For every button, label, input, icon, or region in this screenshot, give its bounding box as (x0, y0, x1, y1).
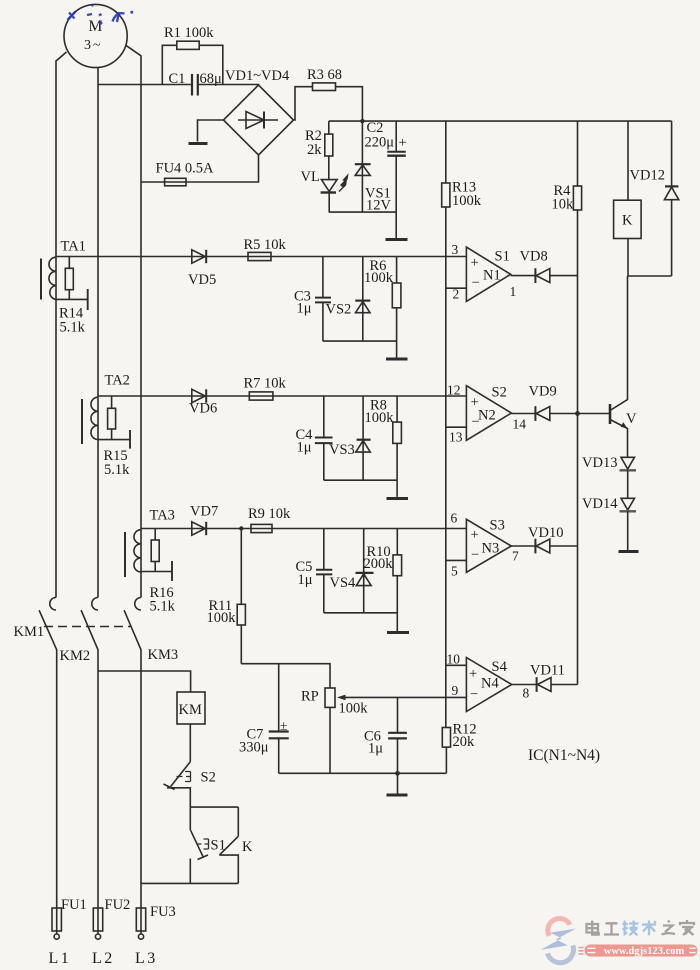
svg-text:S3: S3 (490, 518, 505, 534)
node bus junction VS1 (360, 119, 364, 123)
svg-text:VD13: VD13 (582, 455, 617, 471)
resistor R8 100k (365, 396, 402, 497)
fuse FU1 (49, 897, 87, 967)
LED VL (301, 169, 348, 212)
svg-text:www.dgjs123.com: www.dgjs123.com (604, 946, 685, 957)
diode VD13 (582, 455, 636, 498)
wire C1 to bridge top (198, 84, 259, 87)
ground (reference rail) (387, 794, 408, 797)
resistor R9 10k (248, 506, 291, 533)
svg-text:FU3: FU3 (150, 904, 176, 920)
svg-text:VD14: VD14 (582, 496, 618, 512)
resistor R10 200k (364, 529, 402, 632)
wire row2 RC bottom rail (324, 479, 397, 481)
svg-text:1μ: 1μ (298, 572, 313, 588)
watermark title dian-gong-ji-shu-zhi-jia (587, 920, 695, 935)
relay coil K (614, 121, 642, 276)
contact K (relay self-hold) (219, 807, 253, 883)
wire row3 TA3 to S3 pin6 (141, 528, 466, 530)
svg-text:100k: 100k (364, 270, 394, 286)
wire C1 feed from leg L2 (98, 84, 191, 86)
svg-text:KM3: KM3 (148, 647, 179, 663)
wire KM coil to S2 (189, 724, 191, 762)
svg-text:VS3: VS3 (329, 442, 355, 458)
svg-text:10k: 10k (552, 197, 575, 213)
resistor R13 100k (442, 121, 482, 727)
svg-text:−: − (472, 275, 480, 291)
wire bridge left vertex to ground (198, 120, 224, 142)
wire S2 branch (190, 806, 238, 808)
svg-text:1μ: 1μ (297, 301, 312, 317)
zener VS1 12V (355, 121, 392, 213)
svg-text:330μ: 330μ (239, 740, 269, 756)
svg-text:+: + (471, 527, 479, 543)
svg-text:10: 10 (447, 652, 461, 667)
svg-text:S2: S2 (492, 385, 507, 401)
svg-text:VS4: VS4 (330, 575, 357, 591)
svg-text:−: − (471, 547, 479, 563)
svg-text:100k: 100k (452, 193, 482, 209)
svg-text:C1: C1 (169, 71, 186, 87)
svg-text:R3 68: R3 68 (307, 67, 342, 83)
svg-text:3: 3 (452, 242, 459, 257)
fuse FU2 (92, 897, 130, 967)
ground (bridge minus) (189, 142, 208, 145)
wire +12V bus (329, 120, 672, 122)
resistor R5 10k (244, 237, 287, 261)
svg-text:3~: 3~ (84, 38, 101, 53)
wire row1 TA1 to S1 pin3 (56, 256, 466, 258)
wire motor leg L1 slant (56, 52, 67, 598)
svg-text:IC(N1~N4): IC(N1~N4) (528, 747, 600, 764)
ground (emitter chain) (619, 550, 639, 553)
svg-text:N1: N1 (483, 268, 501, 284)
svg-text:N2: N2 (478, 408, 496, 424)
potentiometer RP 100k (301, 688, 466, 773)
resistor R1 100k loop (162, 25, 223, 85)
svg-text:5.1k: 5.1k (60, 320, 86, 336)
svg-text:N3: N3 (482, 541, 500, 557)
svg-text:R7 10k: R7 10k (244, 376, 287, 392)
current transformer TA1 (41, 239, 86, 300)
resistor R3 68 (307, 67, 342, 91)
svg-text:M: M (89, 18, 103, 35)
svg-text:20k: 20k (453, 734, 476, 750)
wire S3 pin5 stub (446, 559, 467, 561)
svg-text:12: 12 (447, 383, 461, 398)
wire TA2 secondary bottom with terminal bar (98, 430, 130, 449)
diode VD14 (582, 496, 636, 550)
svg-text:L1: L1 (49, 950, 72, 967)
diode VD11 (530, 663, 565, 692)
contactor coil KM (177, 692, 205, 724)
svg-text:VD12: VD12 (630, 168, 665, 184)
svg-text:+: + (471, 255, 479, 271)
bridge rectifier VD1~VD4 (224, 68, 294, 155)
contact KM1 (14, 598, 57, 909)
watermark logo (541, 919, 576, 963)
watermark banner www.dgjs123.com (579, 945, 698, 958)
svg-text:VD6: VD6 (189, 401, 217, 417)
svg-text:S1: S1 (495, 249, 510, 265)
svg-text:VD1~VD4: VD1~VD4 (225, 68, 290, 84)
svg-text:7: 7 (512, 549, 519, 564)
wire S1 pin2 stub (446, 287, 467, 289)
zener VS2 (326, 257, 371, 342)
svg-text:200k: 200k (364, 556, 394, 572)
svg-text:S2: S2 (201, 770, 216, 786)
svg-text:100k: 100k (339, 701, 369, 717)
svg-text:VD8: VD8 (520, 249, 548, 265)
motor M1 3-phase (64, 4, 127, 67)
svg-text:100k: 100k (207, 610, 237, 626)
transistor V (610, 276, 637, 457)
ground (row2) (387, 497, 409, 500)
diode VD9 (529, 384, 557, 421)
svg-text:−: − (470, 687, 478, 703)
svg-text:9: 9 (452, 683, 459, 698)
svg-text:8: 8 (523, 686, 530, 701)
svg-text:13: 13 (449, 430, 463, 445)
switch S1 (start button) (190, 807, 226, 883)
wire FU4 branch from leg L3 (141, 181, 165, 183)
wire motor leg L3 slant (126, 46, 141, 598)
current transformer TA3 (125, 508, 175, 578)
diode VD8 (520, 249, 550, 284)
wire RP/C6/R12 bottom rail (279, 772, 447, 774)
svg-text:1μ: 1μ (368, 741, 383, 757)
ground (row3) (387, 631, 409, 634)
capacitor C2 220u (365, 120, 407, 212)
resistor R2 2k (305, 121, 333, 180)
fuse FU4 0.5A (156, 161, 215, 186)
wire S4 output (512, 684, 578, 686)
svg-text:12V: 12V (366, 198, 392, 214)
svg-text:R1 100k: R1 100k (164, 25, 214, 41)
diode VD12 (630, 121, 679, 276)
wire S1 output (511, 275, 578, 277)
svg-text:R9 10k: R9 10k (248, 506, 291, 522)
svg-text:VD10: VD10 (528, 525, 563, 541)
svg-text:VL: VL (301, 169, 320, 185)
svg-text:K: K (242, 839, 253, 855)
diode VD10 (528, 525, 563, 553)
resistor R12 20k (442, 722, 476, 774)
svg-text:TA2: TA2 (105, 373, 130, 389)
svg-text:TA1: TA1 (61, 239, 86, 255)
svg-text:KM2: KM2 (60, 648, 91, 664)
wire R11 to RP top (241, 664, 330, 688)
resistor R4 10k (552, 121, 582, 684)
op-amp U2 S2(N2) (447, 383, 526, 445)
capacitor C7 330u (239, 664, 289, 774)
svg-text:VD9: VD9 (529, 384, 557, 400)
node R11 junction (239, 526, 243, 530)
wire VL/VS1/C2 bottom rail (329, 212, 396, 238)
wire S4 pin10 stub (446, 664, 467, 666)
svg-text:+: + (399, 135, 407, 151)
op-amp U3 S3(N3) (451, 511, 520, 579)
wire bottom return to L3 line (141, 882, 238, 884)
switch S2 (stop button) (164, 762, 216, 807)
resistor R6 100k (364, 257, 401, 358)
capacitor C6 1u (364, 697, 407, 773)
linkage dashed line (44, 626, 132, 628)
svg-text:1: 1 (510, 284, 517, 299)
svg-text:RP: RP (301, 689, 319, 705)
wire motor leg L2 (97, 68, 99, 598)
resistor R16 5.1k (150, 529, 176, 615)
svg-text:5.1k: 5.1k (150, 599, 176, 615)
wire row1 RC bottom rail (323, 340, 397, 342)
resistor R11 100k (207, 529, 246, 664)
resistor R14 5.1k (59, 257, 86, 336)
diode VD6 (189, 389, 217, 416)
svg-text:V: V (626, 411, 637, 427)
capacitor C4 1u (296, 396, 333, 480)
wire S2 output (511, 413, 577, 415)
zener VS4 (330, 529, 374, 613)
svg-text:VD5: VD5 (188, 272, 216, 288)
wire row3 RC bottom rail (324, 612, 398, 614)
wire TA3 secondary bottom with terminal bar (141, 561, 172, 581)
contact KM2 (60, 598, 99, 909)
capacitor C1 68u (169, 71, 223, 96)
svg-text:R5 10k: R5 10k (244, 237, 287, 253)
wire row2 TA2 to S2 pin12 (98, 395, 466, 397)
wire S3 output (511, 545, 577, 547)
svg-text:L2: L2 (92, 950, 115, 967)
svg-text:VD11: VD11 (530, 663, 565, 679)
fuse FU3 (135, 904, 176, 967)
zener VS3 (329, 396, 371, 480)
svg-text:K: K (622, 213, 633, 229)
blue pen scribble artifact on motor (68, 4, 134, 24)
wire FU4 to bridge bottom (186, 155, 259, 182)
svg-text:L3: L3 (135, 950, 158, 967)
svg-text:5.1k: 5.1k (104, 462, 130, 478)
wire ground stub (397, 773, 399, 793)
diode VD7 (190, 504, 218, 536)
svg-text:VS2: VS2 (326, 302, 352, 318)
svg-text:220μ: 220μ (365, 135, 395, 151)
op-amp U4 S4(N4) (447, 652, 530, 712)
ground (row1) (386, 358, 408, 361)
capacitor C5 1u (296, 529, 333, 613)
svg-text:N4: N4 (481, 676, 499, 692)
svg-text:1μ: 1μ (297, 440, 312, 456)
svg-text:FU1: FU1 (61, 897, 87, 913)
current transformer TA2 (82, 373, 130, 445)
svg-text:FU4 0.5A: FU4 0.5A (156, 161, 215, 177)
svg-text:±: ± (280, 718, 287, 733)
wire base of V (578, 413, 611, 415)
svg-text:KM: KM (179, 702, 202, 718)
resistor R15 5.1k (104, 396, 131, 478)
capacitor C3 1u (294, 257, 331, 342)
wire TA1 secondary bottom with terminal bar (56, 289, 88, 310)
node C6 ground junction (395, 771, 400, 776)
wire bridge right vertex via R3 to bus (294, 87, 363, 121)
wire KM2 to coil KM (98, 671, 191, 692)
svg-text:2k: 2k (307, 142, 322, 158)
svg-text:VD7: VD7 (190, 504, 218, 520)
svg-text:S4: S4 (492, 659, 508, 675)
svg-text:+: + (469, 666, 477, 682)
ground (C2 rail) (386, 238, 408, 241)
svg-text:FU2: FU2 (105, 897, 131, 913)
svg-text:100k: 100k (365, 410, 395, 426)
svg-text:14: 14 (513, 417, 527, 432)
svg-text:TA3: TA3 (150, 508, 175, 524)
contact KM3 (124, 598, 178, 909)
wire K/VD12 bottom to collector (628, 275, 672, 277)
svg-text:KM1: KM1 (14, 624, 45, 640)
wire S2 pin13 stub (446, 426, 467, 428)
diode VD5 (188, 250, 216, 288)
node diode-OR base junction (575, 411, 580, 416)
svg-text:6: 6 (451, 511, 458, 526)
resistor R7 10k (244, 376, 287, 401)
op-amp U1 S1(N1) (452, 242, 517, 302)
svg-text:5: 5 (451, 564, 458, 579)
